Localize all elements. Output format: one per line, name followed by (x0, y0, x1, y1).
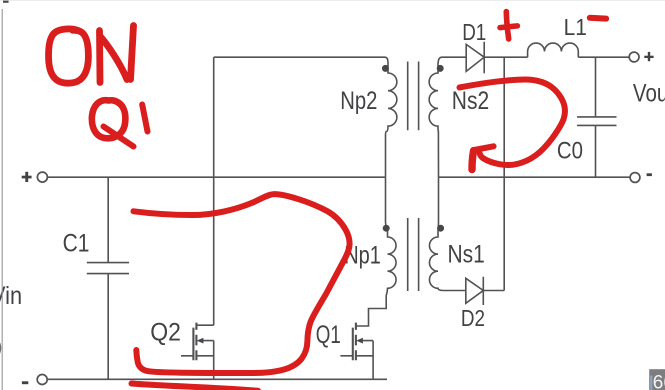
transistor Q1 body arrow (356, 338, 363, 344)
transistor Q2 (181, 57, 214, 379)
annotation ON letter O (49, 29, 89, 83)
transistor Q1 (340, 341, 373, 380)
wire input plus rail (48, 176, 386, 178)
label plus output (644, 56, 653, 58)
svg-text:Q2: Q2 (150, 319, 181, 347)
page top edge line (0, 0, 665, 1)
transformer T1 winding Ns2 (429, 57, 466, 177)
node rectified junction vertical D1-D2 (503, 57, 505, 290)
phase dot Ns1 (437, 225, 444, 232)
annotation Q letter (92, 100, 126, 138)
svg-text:Np2: Np2 (340, 86, 377, 115)
diode D2 (466, 277, 504, 305)
terminal input minus (37, 375, 47, 385)
terminal input plus (37, 172, 47, 182)
ui half disc (0, 335, 1, 361)
transformer T2 core (408, 218, 419, 291)
annotation digit 1 (142, 105, 147, 132)
capacitor C1 (87, 177, 129, 379)
ui page number box blue sliver (650, 376, 652, 390)
wire top-left rail (214, 56, 385, 58)
transformer T1 winding Np2 (385, 57, 397, 177)
transistor Q2 channel and gate (193, 323, 196, 361)
annotation arrowhead shaft (472, 151, 474, 170)
transformer T1 core (408, 62, 419, 131)
svg-text:L1: L1 (564, 14, 587, 40)
svg-text:Vin: Vin (0, 282, 22, 310)
svg-text:Ns1: Ns1 (448, 240, 485, 268)
ui page number box (649, 369, 665, 390)
annotation current loop upper (460, 80, 565, 165)
annotation ON letter N (100, 26, 134, 83)
annotation plus sign (500, 12, 517, 40)
annotation bottom stroke (132, 384, 259, 390)
annotation minus sign near L1 (590, 15, 606, 22)
svg-text:D2: D2 (461, 306, 485, 331)
svg-text:Vout: Vout (633, 79, 665, 107)
label plus input (22, 176, 32, 179)
annotation arrowhead barb (474, 146, 493, 150)
phase dot Np2 (382, 65, 389, 72)
label minus output (647, 173, 652, 176)
transistor Q1 channel and gate (353, 323, 356, 361)
svg-text:66: 66 (653, 373, 665, 390)
annotation big loop (134, 194, 350, 373)
svg-text:D1: D1 (462, 20, 486, 45)
svg-text:C1: C1 (63, 229, 90, 257)
svg-text:C0: C0 (557, 137, 583, 164)
wire input bottom rail (47, 378, 387, 380)
wire output return rail (439, 176, 630, 178)
transformer T2 winding Np1 (356, 177, 396, 326)
page corner mark (3, 1, 9, 3)
diode D1 (466, 42, 527, 73)
terminal output plus (629, 52, 639, 62)
annotation Q tail (104, 127, 134, 147)
phase dot Ns2 (437, 65, 444, 72)
svg-text:Q1: Q1 (316, 320, 341, 348)
terminal output minus (630, 173, 640, 183)
label minus input (22, 381, 28, 384)
phase dot Np1 (383, 225, 390, 232)
transformer T2 winding Ns1 (429, 177, 465, 290)
inductor L1 (528, 43, 630, 57)
capacitor C0 (577, 57, 617, 177)
page left border (1, 9, 3, 390)
svg-text:Ns2: Ns2 (452, 86, 489, 114)
transistor Q2 body arrow (197, 338, 204, 344)
